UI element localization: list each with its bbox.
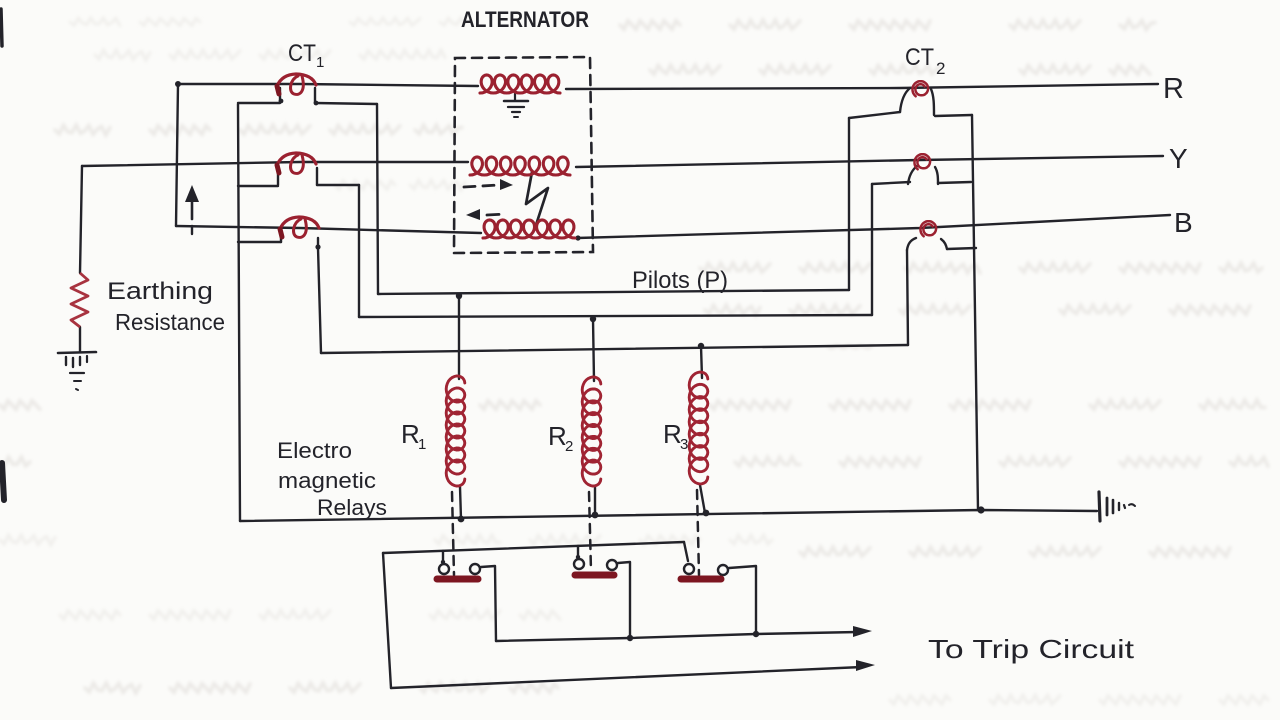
svg-text:2: 2 bbox=[565, 438, 573, 455]
svg-text:R: R bbox=[548, 421, 567, 451]
svg-text:1: 1 bbox=[418, 436, 426, 453]
svg-text:ALTERNATOR: ALTERNATOR bbox=[461, 7, 589, 32]
svg-text:CT: CT bbox=[905, 44, 934, 71]
svg-text:R: R bbox=[1163, 73, 1184, 105]
svg-text:1: 1 bbox=[316, 54, 324, 71]
svg-text:Y: Y bbox=[1169, 143, 1188, 174]
svg-text:magnetic: magnetic bbox=[278, 468, 376, 493]
svg-text:Electro: Electro bbox=[277, 438, 352, 463]
svg-text:Pilots (P): Pilots (P) bbox=[632, 267, 728, 294]
svg-text:B: B bbox=[1174, 207, 1193, 238]
svg-text:To Trip Circuit: To Trip Circuit bbox=[928, 634, 1135, 664]
svg-text:R: R bbox=[401, 419, 420, 449]
svg-text:Resistance: Resistance bbox=[115, 309, 225, 335]
svg-text:Relays: Relays bbox=[317, 495, 387, 520]
svg-text:3: 3 bbox=[680, 436, 688, 453]
svg-text:R: R bbox=[663, 419, 682, 449]
svg-text:Earthing: Earthing bbox=[107, 278, 213, 305]
svg-text:CT: CT bbox=[288, 40, 316, 67]
svg-text:2: 2 bbox=[936, 59, 945, 78]
